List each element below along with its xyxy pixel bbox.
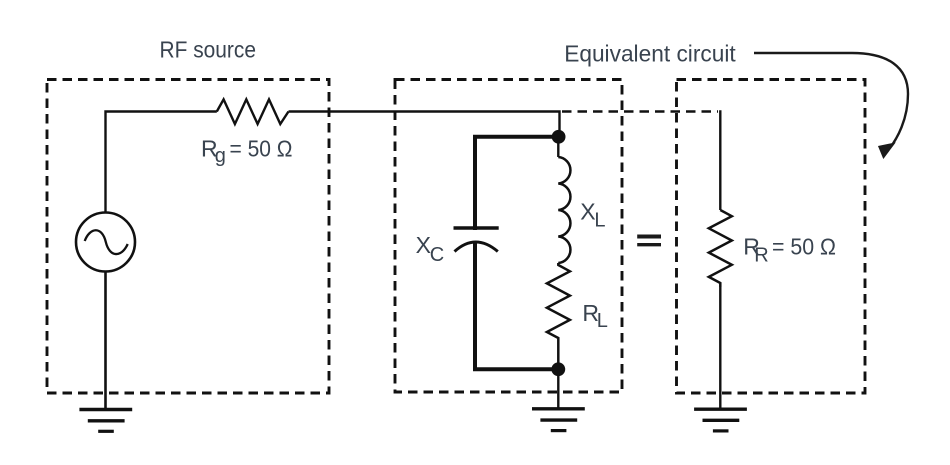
resistor RR (zigzag) — [709, 210, 732, 287]
svg-text:X: X — [580, 199, 595, 225]
dashed box: RF source — [47, 80, 329, 394]
ground (RF source) — [79, 410, 132, 432]
wire: resistor RR to ground — [719, 287, 721, 409]
annotation arrow to equivalent circuit box — [754, 53, 908, 152]
wire: node B to ground — [557, 369, 559, 409]
svg-text:Equivalent circuit: Equivalent circuit — [564, 40, 736, 66]
node A (top junction, filled) — [552, 130, 566, 144]
inductor XL (4 loops) — [558, 157, 570, 263]
svg-text:L: L — [594, 209, 605, 231]
ground (equivalent circuit) — [694, 409, 747, 431]
wire: top of equivalent branch — [719, 110, 721, 210]
wire: source to ground — [104, 272, 107, 411]
resistor Rg (zigzag) — [217, 99, 289, 124]
ground (tank circuit) — [532, 409, 585, 431]
svg-text:R: R — [754, 244, 768, 266]
dashed wire: node A to equivalent circuit — [562, 110, 718, 112]
svg-text:X: X — [416, 232, 431, 258]
dashed box: tank circuit — [395, 80, 622, 393]
capacitor XC plate (flat) — [454, 226, 499, 229]
wire: capacitor bottom to tank loop bottom (thick) — [475, 242, 558, 370]
node B (bottom junction, filled) — [551, 362, 565, 376]
svg-text:= 50 Ω: = 50 Ω — [230, 136, 293, 162]
dashed box: equivalent circuit — [677, 80, 866, 394]
wire: source up and across to resistor Rg — [106, 112, 217, 214]
equals sign — [637, 237, 661, 245]
resistor RL (zigzag) — [547, 263, 570, 344]
wire: top of tank loop (thick) — [475, 137, 558, 230]
capacitor XC plate (curved) — [455, 242, 498, 252]
svg-text:RF source: RF source — [160, 37, 257, 63]
AC source V1 — [76, 213, 135, 272]
svg-text:= 50 Ω: = 50 Ω — [772, 234, 836, 260]
wire: resistor RL to node B — [557, 344, 560, 369]
wire: resistor Rg to node A — [289, 112, 560, 133]
svg-text:g: g — [215, 145, 226, 167]
svg-text:C: C — [430, 244, 444, 266]
wire: node A to inductor — [557, 137, 559, 157]
svg-text:L: L — [597, 310, 608, 332]
